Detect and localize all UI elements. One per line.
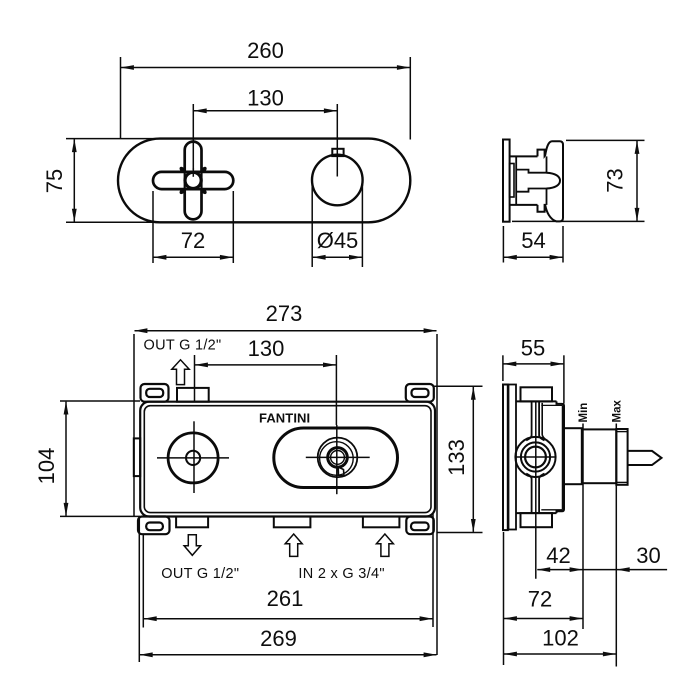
thermo crosshair horizontal	[306, 456, 370, 458]
body bottom edge	[516, 512, 557, 514]
svg-text:30: 30	[636, 543, 660, 568]
svg-text:273: 273	[266, 301, 303, 326]
body inner edge bottom	[541, 509, 562, 511]
svg-text:55: 55	[521, 335, 545, 360]
mounting tab bottom-right	[406, 517, 434, 535]
thermo outer circle	[318, 438, 358, 478]
dimension 269	[139, 516, 436, 662]
dimension 75	[42, 139, 74, 222]
neck line upper-right outer	[542, 403, 547, 441]
stem flange behind handle	[510, 164, 514, 198]
svg-text:72: 72	[528, 587, 552, 612]
hub outline lower	[516, 189, 546, 192]
body outer outline	[140, 402, 435, 517]
cross handle fillet leaf bottom-right	[198, 186, 206, 194]
svg-text:261: 261	[267, 586, 304, 611]
handle arm top edge	[510, 155, 538, 157]
mounting tab top-right	[406, 384, 434, 402]
extension line bottom-left of plate	[66, 221, 163, 223]
body inner edge top	[541, 404, 562, 406]
dimension 72 (handle width)	[153, 191, 233, 263]
knob side profile	[538, 141, 564, 221]
svg-text:104: 104	[34, 448, 59, 485]
tab slot bottom-left	[146, 523, 163, 531]
bottom inlet stub 1	[274, 517, 311, 528]
collar inner line bottom	[616, 481, 627, 483]
cartridge block 2	[582, 429, 616, 483]
dimension 54	[503, 226, 563, 263]
svg-text:42: 42	[546, 543, 570, 568]
cross handle horizontal arm	[153, 172, 233, 189]
dimension 42	[537, 543, 582, 570]
hub centerline	[192, 168, 194, 177]
Min reference line	[582, 424, 584, 630]
tab slot bottom-right	[411, 523, 429, 531]
dimension 104	[34, 401, 140, 516]
side plate outer	[503, 385, 508, 531]
svg-text:FANTINI: FANTINI	[259, 411, 310, 426]
svg-text:130: 130	[247, 86, 284, 111]
thermo middle circle	[320, 442, 354, 476]
cross handle fillet leaf top-right	[198, 167, 206, 175]
body top edge	[516, 400, 557, 402]
dimension 133	[434, 386, 483, 532]
tab slot top-right	[412, 389, 429, 397]
dimension 55	[503, 335, 564, 403]
spindle	[628, 451, 662, 465]
side wall plate	[503, 140, 510, 222]
dimension 30	[583, 543, 667, 570]
collar inner line top	[616, 431, 627, 433]
body inner outline	[144, 406, 431, 513]
dimension 102	[504, 626, 616, 655]
svg-text:Max: Max	[612, 400, 624, 423]
thermostat stadium	[274, 428, 398, 488]
top stub side	[521, 387, 553, 401]
thermo crosshair vertical	[336, 425, 338, 494]
mounting tab top-left	[141, 384, 169, 402]
hollow arrow up (inlet 2)	[376, 534, 393, 556]
arm face edge upper	[546, 156, 548, 172]
bottom inlet stub 2	[363, 517, 400, 528]
svg-text:130: 130	[248, 336, 285, 361]
left valve inner circle	[186, 451, 200, 465]
Max reference line	[615, 424, 617, 667]
svg-text:54: 54	[521, 228, 545, 253]
dimension 72 (side)	[504, 532, 583, 665]
neck line upper-right	[539, 401, 544, 440]
wall plate (stadium outline)	[118, 139, 410, 223]
collar	[616, 429, 627, 485]
cartridge block 1	[564, 428, 582, 484]
hub outline upper	[516, 170, 546, 173]
left valve circle	[168, 433, 218, 483]
svg-text:72: 72	[181, 228, 205, 253]
svg-text:Min: Min	[578, 403, 590, 423]
inlet crosshair horizontal	[516, 456, 556, 458]
cross handle fillet leaf top-left	[179, 167, 187, 175]
body right outline	[557, 401, 565, 513]
neck line lower-left	[526, 474, 531, 513]
left bracket	[134, 438, 140, 476]
svg-text:260: 260	[247, 38, 284, 63]
extension line top-left of plate	[66, 138, 163, 140]
dimension 73	[512, 140, 645, 221]
round knob circle	[312, 155, 363, 206]
dimension Ø45	[312, 183, 362, 267]
left valve crosshair horizontal	[157, 457, 229, 459]
svg-text:IN 2 x G 3/4": IN 2 x G 3/4"	[298, 566, 384, 582]
svg-text:133: 133	[444, 439, 469, 476]
inlet circle outer	[515, 437, 555, 477]
hollow arrow up (inlet 1)	[285, 534, 302, 556]
arm face edge lower	[546, 189, 548, 205]
inlet circle middle	[521, 442, 550, 471]
bottom stub side	[521, 513, 553, 527]
dimension 130 (top view)	[194, 86, 337, 177]
tab slot top-left	[146, 389, 163, 397]
inlet circle inner	[525, 447, 546, 468]
svg-text:OUT G 1/2": OUT G 1/2"	[161, 566, 239, 582]
arm end bump (toward viewer)	[547, 173, 561, 189]
svg-text:75: 75	[42, 169, 67, 193]
top outlet stub	[177, 388, 209, 402]
left valve crosshair vertical	[193, 421, 195, 493]
hollow arrow up (top outlet)	[172, 360, 189, 385]
handle stem vertical edge	[515, 156, 517, 205]
side plate inner	[509, 385, 517, 530]
hollow arrow down (bottom outlet)	[184, 535, 201, 556]
thermo thick ring	[328, 448, 348, 468]
mounting tab bottom-left	[138, 517, 170, 535]
svg-text:OUT G 1/2": OUT G 1/2"	[144, 338, 222, 354]
cross handle fillet leaf bottom-left	[179, 186, 187, 194]
cross handle vertical arm	[185, 142, 202, 220]
svg-text:269: 269	[260, 626, 297, 651]
dimension 261	[143, 514, 433, 628]
neck line upper-left	[526, 401, 531, 440]
dimension 130 (body)	[195, 336, 337, 425]
cross handle vertical arm inner edges	[185, 104, 202, 189]
svg-text:Ø45: Ø45	[317, 228, 359, 253]
svg-text:102: 102	[542, 626, 579, 651]
neck line lower-right	[539, 474, 544, 513]
bottom outlet stub	[176, 517, 208, 528]
inlet crosshair vertical	[535, 402, 537, 579]
dimension 260	[121, 38, 411, 140]
thermo inner circle	[331, 451, 345, 465]
knob index square	[332, 149, 343, 156]
thermo index notch	[338, 467, 344, 476]
cross handle hub circle	[185, 172, 201, 188]
handle arm bottom edge	[510, 204, 538, 206]
dimension 273	[134, 301, 437, 655]
svg-text:73: 73	[603, 168, 628, 192]
body inner edge right	[561, 405, 563, 509]
